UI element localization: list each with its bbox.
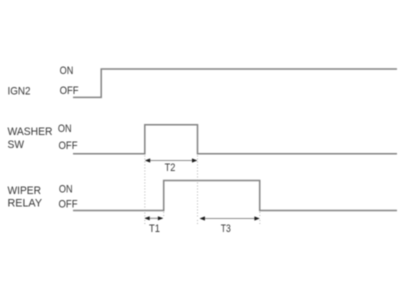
svg-text:RELAY: RELAY [8,198,43,210]
svg-text:T2: T2 [165,162,176,174]
svg-text:T3: T3 [221,223,231,235]
svg-text:OFF: OFF [59,140,78,152]
svg-text:ON: ON [59,183,73,195]
svg-text:T1: T1 [149,223,160,235]
svg-text:OFF: OFF [59,199,78,211]
svg-text:ON: ON [58,123,72,135]
svg-text:WIPER: WIPER [8,185,42,197]
svg-text:SW: SW [8,139,25,151]
svg-text:ON: ON [60,65,74,77]
svg-text:OFF: OFF [60,85,79,97]
svg-text:WASHER: WASHER [8,126,53,138]
svg-text:IGN2: IGN2 [8,85,31,97]
